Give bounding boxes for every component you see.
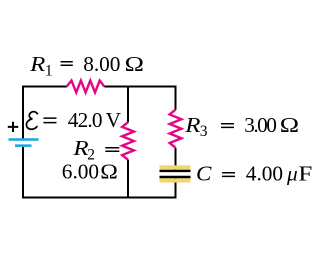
svg-text:1: 1 [45, 63, 53, 80]
svg-text:4.00: 4.00 [246, 161, 283, 185]
svg-text:Ω: Ω [280, 113, 299, 137]
svg-text:Ω: Ω [125, 52, 144, 76]
svg-text:3.00: 3.00 [244, 113, 276, 137]
svg-text:R: R [72, 136, 88, 160]
svg-text:42.0: 42.0 [68, 108, 102, 132]
svg-text:6.00: 6.00 [62, 160, 99, 184]
svg-text:3: 3 [200, 123, 208, 140]
svg-text:μ: μ [286, 161, 298, 185]
svg-text:Ω: Ω [100, 160, 118, 184]
svg-text:R: R [29, 52, 45, 76]
svg-text:V: V [106, 108, 122, 132]
svg-text:C: C [196, 161, 212, 185]
svg-text:F: F [298, 161, 312, 185]
svg-text:R: R [184, 113, 200, 137]
svg-text:8.00: 8.00 [83, 52, 120, 76]
